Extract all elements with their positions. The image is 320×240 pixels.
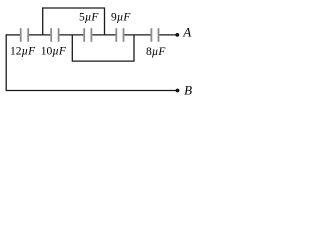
capacitor C12 plates [21,28,159,42]
svg-text:A: A [182,24,191,39]
svg-text:12µF: 12µF [10,45,36,57]
wire: between C10 and C5 [59,34,83,36]
wire: between C12 and C10 [29,34,50,36]
wire: top bypass loop [43,8,105,35]
svg-text:B: B [184,82,192,97]
node A terminal dot [175,33,179,37]
svg-text:9µF: 9µF [111,11,131,23]
wire: C8 to terminal A [159,34,177,36]
wire: bottom rail to terminal B [6,90,178,92]
svg-text:5µF: 5µF [79,11,99,23]
capacitor C8 plates [150,28,152,42]
svg-text:8µF: 8µF [146,46,166,58]
capacitor C10 plates [50,28,52,42]
wire: bottom bypass loop [72,35,134,61]
wire: main line left segment [6,8,178,91]
wire: between C5 and C9 [92,34,115,36]
capacitor C9 plates [115,28,117,42]
wire: between C9 and C8 [124,34,150,36]
wire: left edge down [5,34,7,90]
node B terminal dot [176,89,180,93]
svg-text:10µF: 10µF [41,45,67,57]
capacitor C5 plates [83,28,85,42]
